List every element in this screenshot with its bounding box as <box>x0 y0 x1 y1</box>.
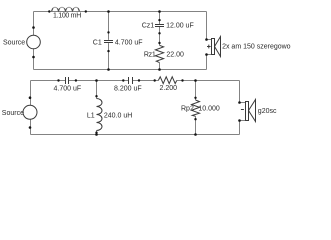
svg-text:4.700 uF: 4.700 uF <box>54 85 82 92</box>
svg-text:4.700 uF: 4.700 uF <box>115 39 143 46</box>
svg-text:2.200: 2.200 <box>160 85 178 92</box>
svg-text:10.000: 10.000 <box>198 105 220 112</box>
svg-text:L1: L1 <box>87 112 95 119</box>
svg-text:1.100 mH: 1.100 mH <box>53 13 81 20</box>
svg-text:Rz1: Rz1 <box>144 52 156 59</box>
svg-text:8.200 uF: 8.200 uF <box>114 86 142 93</box>
svg-text:Rp2: Rp2 <box>181 105 194 112</box>
svg-text:22.00: 22.00 <box>166 52 184 59</box>
svg-text:Source: Source <box>2 110 24 117</box>
svg-text:Source: Source <box>3 39 25 46</box>
svg-text:2x am 150 szeregowo: 2x am 150 szeregowo <box>222 43 291 50</box>
svg-text:12.00 uF: 12.00 uF <box>166 23 194 30</box>
svg-text:g20sc: g20sc <box>258 108 277 115</box>
svg-text:240.0 uH: 240.0 uH <box>104 112 132 119</box>
svg-text:C1: C1 <box>93 39 102 46</box>
svg-text:Cz1: Cz1 <box>142 23 155 30</box>
